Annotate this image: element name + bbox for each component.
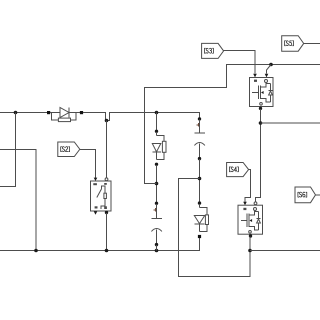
wire J3 down to diode D2 [156,113,158,131]
bottom bus wire [0,238,200,251]
diode D2 with snubber [152,130,166,166]
battery B1 [194,117,205,160]
wire J2 down to switch SW1 terminal 1 [106,121,108,178]
wire Q1 source down to Q2 [256,109,261,202]
node J10 [259,121,263,125]
wire S2 to SW1 gate [80,150,96,178]
wire J1 down to left edge [0,113,16,187]
from tag [S4] [227,163,249,177]
wire SW1 terminal 2 down to bus [106,213,108,251]
node bus J4 [34,249,38,253]
battery B2 [151,202,162,251]
switch SW1 [91,178,112,215]
wire J10 to right edge [261,122,320,124]
node J1 [14,111,18,115]
node J9 on high net [269,63,273,67]
wire high net: right edge to J7 via long route [145,65,320,184]
from tag [S3] [202,43,224,58]
wire Q2 drain down to lower rail [249,237,251,277]
wire J11 to right edge [250,250,320,252]
wire B1 to J8 [199,159,201,203]
from tag [S2] [58,142,80,157]
wire S6 stub to right edge [316,194,320,196]
wire D1 right port to jog and on to battery B1 column [83,113,199,121]
node J7 [155,182,159,186]
mosfet Q2 [238,202,263,238]
wire S3 to Q1 gate [224,51,255,74]
from tag [S5] [282,36,304,52]
wire J8 left and down to lower rail [179,179,251,277]
from tag [S6] [295,187,316,203]
mosfet Q1 [250,74,274,110]
node bus J5 [105,249,109,253]
diode D1 [47,108,83,122]
node J3 diode D2 branch [155,111,159,115]
node J8 [198,177,202,181]
node J11 [248,249,252,253]
wire S5 stub to right edge [304,43,320,45]
diode D3 with snubber [194,201,208,250]
wire diagonal J9 to Q1 case terminal [267,65,272,74]
wire S4 to Q2 gate [245,170,251,202]
wire left edge mid to bottom bus [0,150,36,251]
node J2 jog branch [105,119,109,123]
node bus J6 [155,249,159,253]
wire main top net from left edge to diode D1 [0,112,47,114]
wire D2 to J7 [156,165,158,203]
